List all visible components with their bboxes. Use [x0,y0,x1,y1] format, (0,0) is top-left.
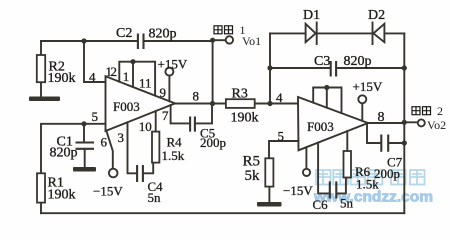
svg-text:200p: 200p [200,135,226,150]
svg-text:Vo2: Vo2 [427,118,446,132]
svg-text:10: 10 [139,119,152,134]
svg-text:5: 5 [278,129,285,144]
svg-text:7: 7 [162,108,169,123]
svg-text:C2: C2 [116,26,132,41]
svg-text:8: 8 [193,88,200,103]
svg-text:Vo1: Vo1 [242,34,261,48]
svg-text:−15V: −15V [93,184,123,199]
svg-text:C6: C6 [313,197,329,212]
svg-text:C3: C3 [314,54,330,69]
svg-text:5n: 5n [340,196,354,211]
svg-text:1: 1 [123,69,130,84]
svg-text:4: 4 [276,90,283,105]
svg-text:3: 3 [118,130,125,145]
svg-text:9: 9 [160,85,167,100]
svg-text:190k: 190k [231,111,259,126]
svg-text:820p: 820p [344,54,372,69]
svg-text:2: 2 [437,104,443,118]
svg-text:www.cndzz.com: www.cndzz.com [313,190,433,206]
svg-text:+15V: +15V [158,56,188,71]
svg-text:D1: D1 [303,8,320,23]
svg-text:D2: D2 [368,8,385,23]
svg-text:1.5k: 1.5k [162,148,185,163]
svg-text:6: 6 [101,135,108,150]
svg-text:F003: F003 [113,99,140,114]
svg-text:5: 5 [92,109,99,124]
svg-text:12: 12 [106,64,117,79]
svg-text:200p: 200p [374,166,400,181]
svg-text:820p: 820p [50,146,78,161]
svg-text:11: 11 [139,76,152,91]
svg-text:190k: 190k [48,71,76,86]
svg-text:−15V: −15V [283,183,313,198]
svg-text:+15V: +15V [353,79,383,94]
svg-text:4: 4 [89,70,96,85]
svg-text:190k: 190k [48,188,76,203]
svg-text:820p: 820p [149,27,177,42]
svg-text:5n: 5n [148,190,162,205]
svg-text:8: 8 [378,110,385,125]
svg-text:R3: R3 [232,87,248,102]
svg-text:5k: 5k [245,168,261,184]
svg-text:F003: F003 [307,119,334,134]
